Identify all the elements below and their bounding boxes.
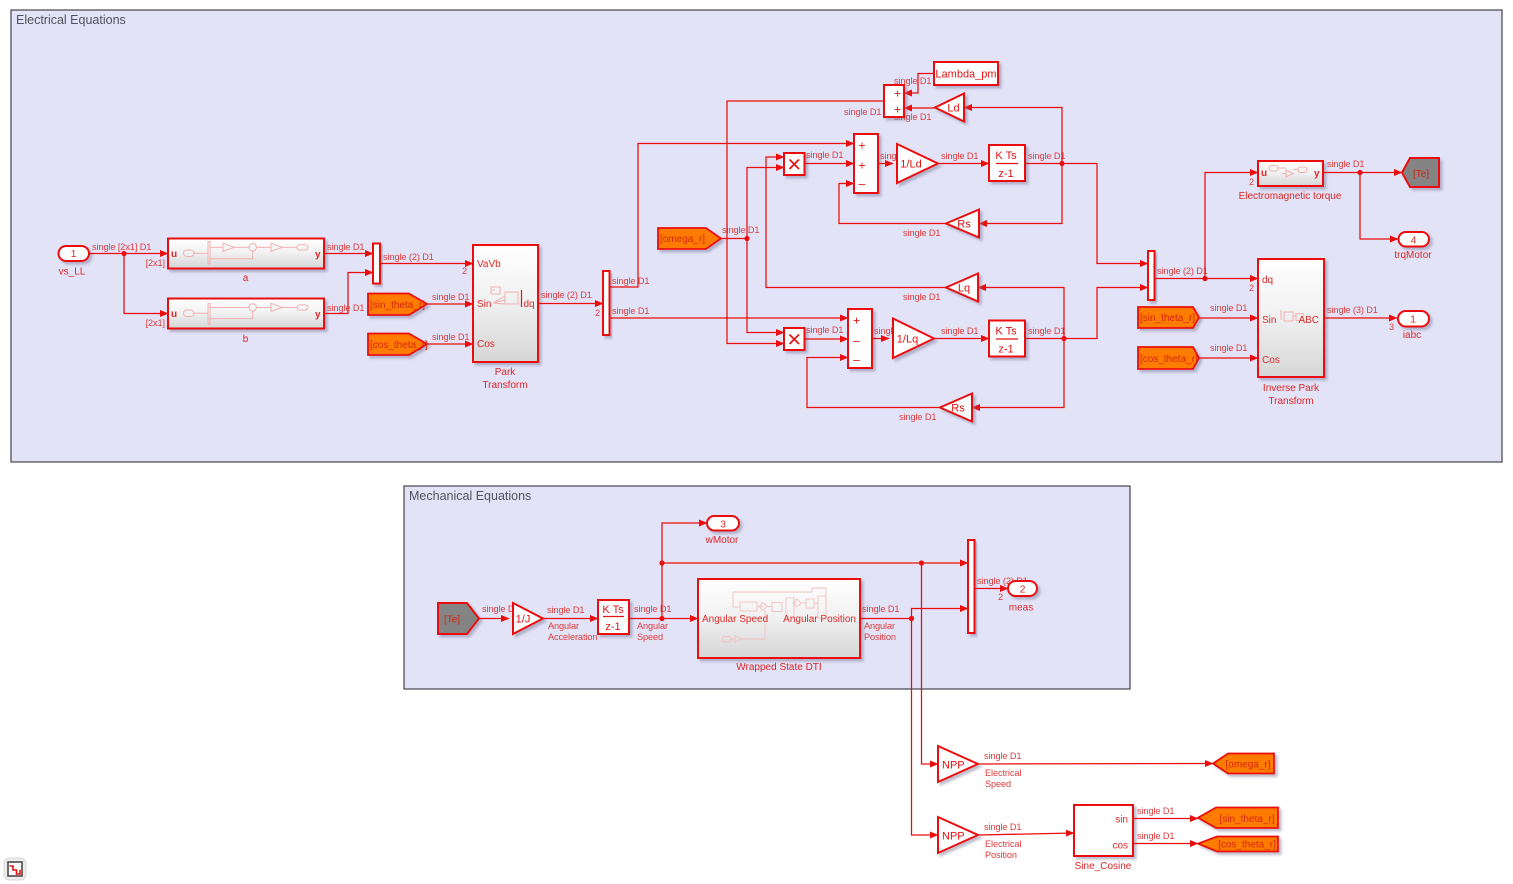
svg-text:Position: Position <box>985 850 1017 860</box>
svg-text:single D1: single D1 <box>432 292 469 302</box>
svg-text:b: b <box>243 334 249 345</box>
svg-text:Sin: Sin <box>1262 315 1276 326</box>
gain Rs (q axis) <box>940 394 972 422</box>
svg-text:2: 2 <box>1249 283 1254 293</box>
svg-text:single D1: single D1 <box>1210 343 1247 353</box>
svg-text:single D1: single D1 <box>844 107 881 117</box>
node Te junction <box>1357 170 1362 175</box>
svg-text:[sin_theta_r]: [sin_theta_r] <box>1219 814 1274 825</box>
svg-text:Sin: Sin <box>477 299 491 310</box>
svg-text:z-1: z-1 <box>998 168 1013 180</box>
svg-text:single D1: single D1 <box>941 326 978 336</box>
svg-text:2: 2 <box>998 592 1003 602</box>
svg-text:dq: dq <box>524 299 535 310</box>
svg-text:Angular: Angular <box>637 621 668 631</box>
svg-text:1/J: 1/J <box>516 614 531 626</box>
node position junction <box>909 616 914 621</box>
subsystem block b <box>168 299 324 346</box>
unit delay q (K Ts / z-1) <box>989 321 1025 357</box>
product block X2 <box>784 328 805 350</box>
svg-text:single D1: single D1 <box>432 332 469 342</box>
svg-text:[sin_theta_r]: [sin_theta_r] <box>370 300 425 311</box>
svg-text:+: + <box>853 314 860 328</box>
wire b to mux <box>324 273 373 314</box>
wire omega_r to junction <box>721 225 759 239</box>
demux D1 <box>603 271 610 335</box>
svg-text:2: 2 <box>1020 584 1026 596</box>
svg-text:[Te]: [Te] <box>444 615 460 626</box>
svg-text:[omega_r]: [omega_r] <box>660 234 705 245</box>
svg-text:u: u <box>171 309 177 320</box>
svg-text:Electrical: Electrical <box>985 768 1021 778</box>
svg-text:+: + <box>894 103 901 117</box>
svg-text:K Ts: K Ts <box>602 604 624 616</box>
gain NPP1 (electrical speed) <box>938 746 978 782</box>
subsystem block a <box>168 239 324 285</box>
svg-text:single D1: single D1 <box>327 242 364 252</box>
svg-text:Speed: Speed <box>985 779 1011 789</box>
svg-text:1: 1 <box>1410 314 1416 326</box>
svg-text:Rs: Rs <box>951 403 965 415</box>
svg-text:[Te]: [Te] <box>1413 169 1429 180</box>
svg-text:[cos_theta_r]: [cos_theta_r] <box>1218 840 1276 851</box>
svg-text:single D1: single D1 <box>984 751 1021 761</box>
svg-text:single D1: single D1 <box>806 325 843 335</box>
svg-text:single D1: single D1 <box>1327 159 1364 169</box>
gain NPP2 (electrical position) <box>938 817 978 853</box>
svg-text:NPP: NPP <box>942 760 965 772</box>
wire id to Rs d <box>979 164 1062 224</box>
from tag sin_theta_r (left) <box>368 294 427 316</box>
svg-text:single (2) D1: single (2) D1 <box>1157 266 1208 276</box>
wire sin to sin_theta_r goto <box>1133 806 1198 819</box>
wire NPP1 to omega_r goto <box>978 751 1213 789</box>
from tag Te (mechanical) <box>438 603 479 634</box>
svg-text:y: y <box>1314 169 1320 180</box>
wire omega to product1 <box>747 168 784 239</box>
svg-text:Speed: Speed <box>637 632 663 642</box>
svg-text:4: 4 <box>1411 235 1417 247</box>
wire 1/J to unit delay mech <box>543 605 598 642</box>
svg-text:single D1: single D1 <box>1137 831 1174 841</box>
svg-text:single D1: single D1 <box>862 604 899 614</box>
wire Lq feedback to product1 <box>766 157 946 302</box>
wire speed to mux3 top <box>662 562 968 564</box>
svg-text:single D1: single D1 <box>941 151 978 161</box>
gain Ld <box>935 94 964 122</box>
svg-text:1/Ld: 1/Ld <box>900 159 921 171</box>
svg-text:ABC: ABC <box>1298 315 1319 326</box>
svg-text:single [2x1] D1: single [2x1] D1 <box>92 242 151 252</box>
from tag sin_theta_r (right) <box>1138 307 1199 328</box>
wire 1/Lq to unit delay q <box>934 326 989 339</box>
svg-text:single D1: single D1 <box>547 605 584 615</box>
goto tag sin_theta_r <box>1198 808 1278 829</box>
block constant Lambda_pm <box>934 62 998 85</box>
svg-text:Mechanical Equations: Mechanical Equations <box>409 489 531 503</box>
svg-text:Transform: Transform <box>1268 396 1313 407</box>
gain 1/Ld <box>897 144 938 183</box>
svg-text:Lq: Lq <box>958 283 970 295</box>
svg-text:z-1: z-1 <box>605 621 620 633</box>
wire cos_theta_r to Park Cos <box>427 332 473 344</box>
svg-text:[cos_theta_r]: [cos_theta_r] <box>1140 354 1198 365</box>
svg-text:K Ts: K Ts <box>995 326 1017 338</box>
goto tag omega_r <box>1213 754 1274 774</box>
svg-text:single (3) D1: single (3) D1 <box>1327 305 1378 315</box>
outport 2 meas <box>1008 581 1037 614</box>
svg-text:VaVb: VaVb <box>477 259 501 270</box>
svg-text:u: u <box>171 249 177 260</box>
svg-text:Electrical: Electrical <box>985 839 1021 849</box>
wire Te to outport trqMotor <box>1360 173 1398 240</box>
wire demux bottom out to sum2 <box>610 306 849 318</box>
wire sum2 to gain 1/Lq <box>872 326 911 339</box>
node omega junction <box>744 236 749 241</box>
svg-text:Angular Position: Angular Position <box>783 614 856 625</box>
goto tag cos_theta_r <box>1198 837 1278 852</box>
node id junction <box>1059 161 1064 166</box>
svg-text:Rs: Rs <box>957 219 971 231</box>
sum block Add1 (d axis) <box>854 134 878 193</box>
wire dq to Electromagnetic torque <box>1205 173 1258 279</box>
wire position to mux3 bottom <box>912 609 969 619</box>
svg-text:single D1: single D1 <box>612 276 649 286</box>
wire id to mux2 <box>1062 164 1148 264</box>
svg-text:z-1: z-1 <box>998 344 1013 356</box>
outport 1 iabc <box>1398 311 1429 341</box>
wire cos_theta_r to InvPark Cos <box>1199 343 1258 358</box>
svg-text:1/Lq: 1/Lq <box>897 334 918 346</box>
from tag cos_theta_r (left) <box>368 334 428 356</box>
wire unit delay d output <box>1025 151 1065 164</box>
svg-text:u: u <box>1261 168 1267 179</box>
wire iq to Lq gain <box>978 288 1064 339</box>
wire Ld to sum3 <box>894 108 935 122</box>
svg-text:single D1: single D1 <box>1210 303 1247 313</box>
wire NPP2 to Sine_Cosine <box>978 822 1074 860</box>
wire mux3 to outport meas <box>975 576 1028 602</box>
svg-text:vs_LL: vs_LL <box>59 267 86 278</box>
svg-text:sin: sin <box>1115 815 1128 826</box>
wire iq to mux2 <box>1064 288 1148 339</box>
wire speed to wMotor <box>662 523 707 619</box>
svg-text:–: – <box>853 353 860 367</box>
gain Lq <box>946 274 978 302</box>
subsystem Sine_Cosine <box>1074 805 1133 872</box>
svg-text:single D1: single D1 <box>327 303 364 313</box>
svg-text:+: + <box>858 159 865 173</box>
outport 4 trqMotor <box>1394 232 1432 261</box>
wire speed tap down to NPP1 <box>922 563 939 764</box>
wire unit delay q output <box>1025 326 1065 339</box>
node iq junction <box>1061 336 1066 341</box>
wire vs_LL to a <box>89 242 168 268</box>
svg-text:Angular Speed: Angular Speed <box>702 614 768 625</box>
wire EM torque to Te goto <box>1323 159 1402 173</box>
wire Rs q feedback to sum2 <box>807 358 940 423</box>
svg-text:Cos: Cos <box>1262 355 1280 366</box>
svg-text:Park: Park <box>495 367 517 378</box>
wire product2 to sum2 <box>805 325 849 339</box>
svg-text:[cos_theta_r]: [cos_theta_r] <box>370 340 428 351</box>
svg-text:single D1: single D1 <box>1028 151 1065 161</box>
svg-text:+: + <box>858 139 865 153</box>
svg-text:single D1: single D1 <box>1028 326 1065 336</box>
from tag cos_theta_r (right) <box>1138 347 1199 369</box>
svg-text:Ld: Ld <box>947 103 959 115</box>
svg-text:K Ts: K Ts <box>995 150 1017 162</box>
unit delay d (K Ts / z-1) <box>989 145 1025 181</box>
svg-text:Angular: Angular <box>864 621 895 631</box>
svg-text:single D1: single D1 <box>1137 806 1174 816</box>
svg-text:cos: cos <box>1112 841 1128 852</box>
svg-text:single D1: single D1 <box>903 292 940 302</box>
wire product1 to sum1 <box>805 150 855 164</box>
svg-text:y: y <box>315 310 321 321</box>
wire sin_theta_r to InvPark Sin <box>1199 303 1258 318</box>
wire sum1 to gain 1/Ld <box>878 151 917 164</box>
wire mux2 to Inverse Park dq <box>1155 266 1259 293</box>
svg-text:2: 2 <box>1249 177 1254 187</box>
wire a to mux <box>324 242 373 254</box>
svg-text:[2x1]: [2x1] <box>146 258 165 268</box>
mux M3 <box>968 540 975 633</box>
svg-text:2: 2 <box>595 308 600 318</box>
svg-text:single (2) D1: single (2) D1 <box>541 290 592 300</box>
wire id to Ld gain <box>964 108 1062 164</box>
svg-text:Electrical Equations: Electrical Equations <box>16 13 126 27</box>
svg-text:[2x1]: [2x1] <box>146 318 165 328</box>
svg-text:1: 1 <box>71 248 77 260</box>
svg-text:NPP: NPP <box>942 831 965 843</box>
svg-text:single D1: single D1 <box>634 604 671 614</box>
wire DTI output <box>860 604 912 642</box>
svg-text:Inverse Park: Inverse Park <box>1263 383 1320 394</box>
svg-text:Lambda_pm: Lambda_pm <box>935 69 996 81</box>
svg-text:Transform: Transform <box>482 380 527 391</box>
svg-text:Angular: Angular <box>548 621 579 631</box>
node speed junction <box>659 616 664 621</box>
wire sin_theta_r to Park Sin <box>427 292 473 304</box>
svg-text:Cos: Cos <box>477 339 495 350</box>
svg-text:3: 3 <box>720 519 726 531</box>
svg-text:2: 2 <box>462 266 467 276</box>
svg-text:[omega_r]: [omega_r] <box>1225 760 1270 771</box>
svg-text:[sin_theta_r]: [sin_theta_r] <box>1140 313 1195 324</box>
svg-text:single D1: single D1 <box>806 150 843 160</box>
wire cos to cos_theta_r goto <box>1133 831 1198 844</box>
node speed junction 2 <box>659 560 664 565</box>
svg-text:–: – <box>853 334 860 348</box>
svg-text:single D1: single D1 <box>903 228 940 238</box>
svg-text:Electromagnetic torque: Electromagnetic torque <box>1239 191 1342 202</box>
svg-text:Sine_Cosine: Sine_Cosine <box>1075 861 1132 872</box>
wire omega to product2 <box>747 239 784 333</box>
viewer badge icon (bottom-left) <box>4 858 26 880</box>
wire Te to gain 1/J <box>479 604 519 619</box>
svg-text:single D1: single D1 <box>612 306 649 316</box>
gain 1/Lq <box>893 319 934 359</box>
wire iq to Rs q <box>972 339 1064 408</box>
wire demux top out to sum1 <box>610 144 855 288</box>
from tag omega_r (electrical) <box>658 228 721 249</box>
svg-text:single D1: single D1 <box>984 822 1021 832</box>
svg-text:single D1: single D1 <box>899 412 936 422</box>
svg-text:meas: meas <box>1009 603 1033 614</box>
svg-text:y: y <box>315 250 321 261</box>
wire unit delay to Wrapped State DTI <box>629 604 698 642</box>
subsystem Electromagnetic torque <box>1239 161 1342 202</box>
svg-text:–: – <box>859 177 866 191</box>
subsystem Inverse Park Transform <box>1258 259 1324 407</box>
svg-text:a: a <box>243 273 249 284</box>
node speed tap junction <box>919 560 924 565</box>
wire vs_LL branch to b <box>124 254 168 329</box>
outport 3 wMotor <box>705 516 739 546</box>
node dq junction <box>1202 276 1207 281</box>
wire Lambda_pm to sum3 <box>894 74 934 94</box>
sum block Add2 (q axis) <box>848 309 872 368</box>
wire Rs d feedback to sum1 <box>839 184 946 239</box>
svg-text:iabc: iabc <box>1403 330 1421 341</box>
gain 1/J <box>513 603 543 634</box>
svg-text:3: 3 <box>1389 322 1394 332</box>
wire InvPark to outport iabc <box>1324 305 1397 332</box>
wire sum3 output to product2 <box>727 101 884 344</box>
product block X1 <box>784 153 805 175</box>
goto tag Te <box>1402 158 1439 187</box>
subsystem Park Transform <box>473 245 538 391</box>
svg-text:trqMotor: trqMotor <box>1394 250 1432 261</box>
mux M2 <box>1148 251 1155 300</box>
wire 1/Ld to unit delay d <box>938 151 989 164</box>
wire mux to Park VaVb <box>380 252 473 276</box>
wire position down to NPP2 <box>912 619 939 836</box>
sum block Add3 (flux) <box>884 85 904 117</box>
mux M1 <box>373 244 380 284</box>
unit delay mech (K Ts / z-1) <box>598 600 629 634</box>
inport 1 vs_LL <box>59 246 90 278</box>
svg-text:wMotor: wMotor <box>705 535 739 546</box>
svg-text:Wrapped State DTI: Wrapped State DTI <box>736 662 821 673</box>
svg-text:single (2) D1: single (2) D1 <box>383 252 434 262</box>
subsystem Wrapped State DTI <box>698 579 860 673</box>
svg-text:Acceleration: Acceleration <box>548 632 597 642</box>
node junction on vs_LL wire <box>121 251 126 256</box>
wire Park to demux <box>538 290 603 318</box>
svg-text:dq: dq <box>1262 275 1273 286</box>
svg-text:Position: Position <box>864 632 896 642</box>
svg-text:+: + <box>894 87 901 101</box>
subsystem area Mechanical Equations <box>404 486 1130 689</box>
subsystem area Electrical Equations <box>11 10 1502 462</box>
gain Rs (d axis) <box>946 210 979 238</box>
